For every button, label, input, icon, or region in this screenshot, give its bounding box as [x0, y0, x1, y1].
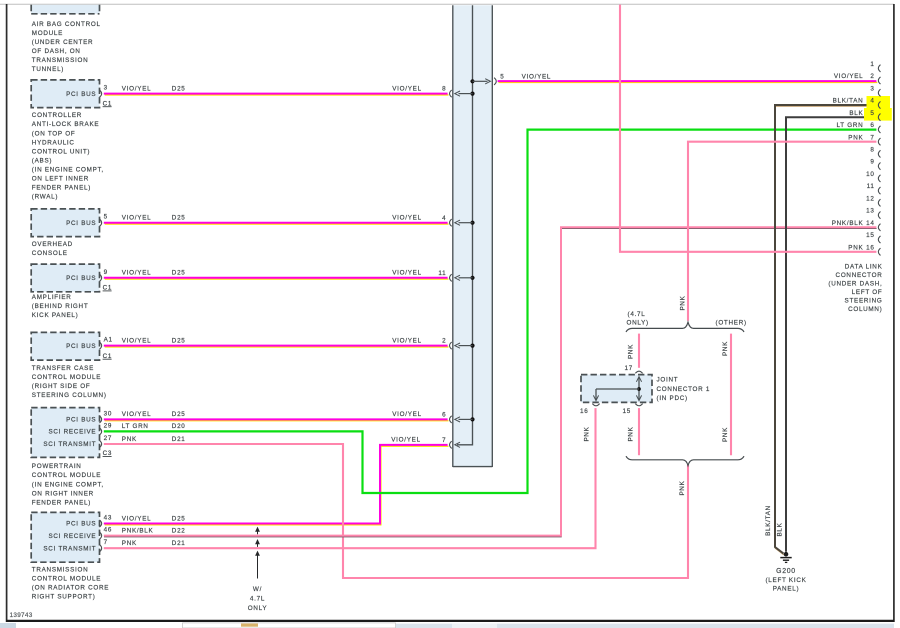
- svg-text:PNK/BLK: PNK/BLK: [832, 220, 864, 227]
- svg-text:VIO/YEL: VIO/YEL: [122, 85, 152, 92]
- svg-text:PNK: PNK: [584, 426, 591, 441]
- svg-text:PNK: PNK: [679, 295, 686, 310]
- W/ 4.7L ONLY arrow 2: [255, 539, 260, 547]
- bus junction pin 2: [442, 338, 475, 350]
- svg-text:(UNDER CENTER: (UNDER CENTER: [32, 39, 93, 46]
- svg-text:LEFT OF: LEFT OF: [852, 289, 883, 296]
- svg-text:RIGHT SUPPORT): RIGHT SUPPORT): [32, 594, 96, 601]
- svg-text:PCI BUS: PCI BUS: [66, 275, 96, 282]
- svg-text:G200: G200: [776, 568, 796, 575]
- svg-text:1: 1: [870, 61, 874, 68]
- svg-text:LT GRN: LT GRN: [837, 122, 864, 129]
- svg-text:(RIGHT SIDE OF: (RIGHT SIDE OF: [32, 383, 91, 390]
- label (OTHER): [716, 320, 747, 327]
- svg-text:CONSOLE: CONSOLE: [32, 250, 68, 257]
- svg-text:ON RIGHT INNER: ON RIGHT INNER: [32, 490, 94, 497]
- bus junction pin 6: [442, 412, 475, 424]
- wire VIO/YEL D25 pcm pin30 to bus pin6: [104, 419, 449, 420]
- svg-text:VIO/YEL: VIO/YEL: [122, 270, 152, 277]
- svg-text:PNK: PNK: [122, 436, 137, 443]
- label VIO/YEL D25 row overhead console: [122, 215, 422, 222]
- svg-text:PNK: PNK: [848, 134, 863, 141]
- svg-text:6: 6: [870, 122, 874, 129]
- svg-text:9: 9: [104, 269, 108, 276]
- svg-text:PCI BUS: PCI BUS: [66, 521, 96, 528]
- svg-text:9: 9: [870, 159, 874, 166]
- svg-text:VIO/YEL: VIO/YEL: [522, 74, 552, 81]
- svg-text:14: 14: [866, 220, 874, 227]
- wire BLK/TAN DLC pin4 to G200: [775, 105, 877, 555]
- module: powertrain control module box: [31, 408, 112, 458]
- controller anti-lock brake caption: [32, 112, 104, 201]
- svg-text:VIO/YEL: VIO/YEL: [122, 215, 152, 222]
- svg-text:VIO/YEL: VIO/YEL: [122, 411, 152, 418]
- svg-text:ONLY: ONLY: [248, 605, 268, 612]
- svg-text:(4.7L: (4.7L: [628, 311, 646, 318]
- label PNK/BLK D22 row tcm: [122, 527, 186, 534]
- PCI bus band: [453, 5, 493, 467]
- svg-text:CONTROL MODULE: CONTROL MODULE: [32, 374, 101, 381]
- wire PNK D21 pcm pin27 to splice merge: [104, 444, 688, 578]
- svg-text:A1: A1: [104, 337, 113, 344]
- svg-text:11: 11: [867, 183, 875, 190]
- svg-text:D21: D21: [172, 540, 186, 547]
- svg-text:(BEHIND RIGHT: (BEHIND RIGHT: [32, 303, 89, 310]
- svg-text:CONNECTOR: CONNECTOR: [836, 272, 883, 279]
- svg-text:D25: D25: [172, 85, 186, 92]
- svg-text:(IN ENGINE COMPT,: (IN ENGINE COMPT,: [32, 481, 104, 488]
- wire VIO/YEL D25 abs pin3 to bus pin8: [104, 94, 449, 95]
- svg-text:VIO/YEL: VIO/YEL: [391, 437, 421, 444]
- svg-text:PCI BUS: PCI BUS: [66, 91, 96, 98]
- svg-text:5: 5: [500, 74, 504, 81]
- wire VIO/YEL D25 transfer case A1 to bus pin2: [104, 346, 449, 347]
- svg-text:AIR BAG CONTROL: AIR BAG CONTROL: [32, 21, 101, 28]
- svg-text:D22: D22: [172, 527, 186, 534]
- svg-text:(LEFT KICK: (LEFT KICK: [765, 577, 806, 584]
- svg-text:PNK/BLK: PNK/BLK: [122, 527, 154, 534]
- svg-text:VIO/YEL: VIO/YEL: [392, 337, 422, 344]
- svg-text:3: 3: [870, 85, 874, 92]
- svg-text:8: 8: [442, 86, 446, 93]
- svg-text:17: 17: [625, 365, 633, 372]
- module: transfer case control module box: [31, 332, 113, 360]
- wire VIO/YEL D25 bus pin5 to DLC pin2: [498, 81, 878, 82]
- svg-text:ON LEFT INNER: ON LEFT INNER: [32, 176, 89, 183]
- wire PNK D21 DLC pin7 to splice split: [688, 142, 876, 321]
- svg-text:(OTHER): (OTHER): [716, 320, 747, 327]
- svg-text:POWERTRAIN: POWERTRAIN: [32, 463, 82, 470]
- svg-text:5: 5: [870, 110, 874, 117]
- svg-text:VIO/YEL: VIO/YEL: [122, 337, 152, 344]
- svg-text:PNK: PNK: [628, 426, 635, 441]
- label VIO/YEL after bus pin5: [522, 74, 552, 81]
- svg-text:VIO/YEL: VIO/YEL: [122, 515, 152, 522]
- wire VIO/YEL D25 amplifier pin9 to bus pin11: [104, 278, 449, 279]
- G200 caption: [765, 568, 806, 593]
- svg-text:KICK PANEL): KICK PANEL): [32, 312, 79, 319]
- svg-text:PCI BUS: PCI BUS: [66, 417, 96, 424]
- bus junction pin 8: [442, 86, 475, 98]
- svg-text:(ABS): (ABS): [32, 157, 52, 164]
- label VIO/YEL D25 row abs: [122, 85, 422, 92]
- svg-text:D25: D25: [172, 215, 186, 222]
- svg-text:12: 12: [866, 195, 874, 202]
- svg-text:27: 27: [104, 435, 112, 442]
- transfer case control module caption: [32, 365, 107, 399]
- svg-text:D20: D20: [172, 423, 186, 430]
- svg-text:PNK: PNK: [722, 341, 729, 356]
- svg-text:TRANSMISSION: TRANSMISSION: [32, 567, 89, 574]
- svg-text:BLK: BLK: [777, 522, 784, 536]
- W/ 4.7L ONLY caption: [248, 586, 268, 612]
- svg-text:7: 7: [442, 437, 446, 444]
- svg-text:TRANSFER CASE: TRANSFER CASE: [32, 365, 94, 372]
- svg-text:OVERHEAD: OVERHEAD: [32, 241, 73, 248]
- svg-text:4: 4: [442, 215, 446, 222]
- label VIO/YEL D25 row amplifier: [122, 270, 422, 277]
- svg-text:W/: W/: [253, 586, 262, 593]
- svg-text:TRANSMISSION: TRANSMISSION: [32, 57, 89, 64]
- wire PNK/BLK D22 tcm pin46 to DLC pin14: [104, 227, 877, 537]
- label PNK D21 row pcm: [122, 436, 186, 443]
- svg-text:SCI TRANSMIT: SCI TRANSMIT: [43, 441, 96, 448]
- svg-text:PNK: PNK: [722, 427, 729, 442]
- label (4.7L ONLY): [627, 311, 649, 327]
- svg-text:10: 10: [866, 171, 874, 178]
- svg-text:4.7L: 4.7L: [250, 595, 265, 602]
- svg-text:D25: D25: [172, 411, 186, 418]
- svg-text:CONNECTOR 1: CONNECTOR 1: [657, 386, 711, 393]
- svg-text:HYDRAULIC: HYDRAULIC: [32, 139, 75, 146]
- svg-text:VIO/YEL: VIO/YEL: [392, 85, 422, 92]
- data link connector caption: [828, 264, 882, 314]
- wire PNK joint connector 1 pin15 to merge: [638, 408, 640, 455]
- svg-text:DATA LINK: DATA LINK: [845, 264, 883, 271]
- svg-text:5: 5: [104, 214, 108, 221]
- svg-text:VIO/YEL: VIO/YEL: [392, 215, 422, 222]
- svg-text:BLK/TAN: BLK/TAN: [765, 505, 772, 536]
- svg-text:FENDER PANEL): FENDER PANEL): [32, 499, 91, 506]
- svg-text:BLK: BLK: [849, 110, 863, 117]
- svg-text:CONTROLLER: CONTROLLER: [32, 112, 82, 119]
- svg-text:BLK/TAN: BLK/TAN: [833, 98, 864, 105]
- joint connector 1 caption: [657, 376, 711, 402]
- svg-text:ANTI-LOCK BRAKE: ANTI-LOCK BRAKE: [32, 121, 99, 128]
- svg-text:D25: D25: [172, 515, 186, 522]
- svg-text:43: 43: [104, 515, 112, 522]
- svg-text:TUNNEL): TUNNEL): [32, 66, 64, 73]
- wire VIO/YEL D25 tcm pin43 to bus pin7: [104, 445, 449, 525]
- ground G200: [780, 552, 791, 563]
- svg-text:CONTROL UNIT): CONTROL UNIT): [32, 148, 90, 155]
- svg-text:PNK: PNK: [679, 480, 686, 495]
- svg-text:SCI RECEIVE: SCI RECEIVE: [48, 429, 96, 436]
- module: air bag control module (partial box): [31, 5, 99, 14]
- wire BLK DLC pin5 to G200: [786, 117, 876, 552]
- label VIO/YEL D25 row tcm: [122, 515, 186, 522]
- svg-text:PCI BUS: PCI BUS: [66, 220, 96, 227]
- bottom browser strip: [0, 623, 894, 628]
- wire PNK (OTHER) branch: [730, 334, 732, 456]
- svg-text:16: 16: [866, 244, 874, 251]
- svg-text:(IN ENGINE COMPT,: (IN ENGINE COMPT,: [32, 167, 104, 174]
- W/ 4.7L ONLY arrow 3: [255, 551, 260, 579]
- svg-text:COLUMN): COLUMN): [848, 306, 882, 313]
- label PNK D21 row tcm: [122, 540, 186, 547]
- wire PNK D21 DLC pin16 off top of view: [620, 5, 876, 252]
- svg-text:PNK: PNK: [122, 540, 137, 547]
- svg-text:7: 7: [104, 539, 108, 546]
- svg-text:D21: D21: [172, 436, 186, 443]
- svg-text:(UNDER DASH,: (UNDER DASH,: [828, 281, 882, 288]
- svg-text:3: 3: [104, 85, 108, 92]
- air bag control module caption: [32, 21, 101, 73]
- svg-text:13: 13: [866, 208, 874, 215]
- wire LT GRN D20 pcm pin29 to DLC pin6: [104, 130, 877, 493]
- module: controller anti-lock brake box: [31, 80, 112, 108]
- data link connector pins: [832, 61, 881, 256]
- svg-text:LT GRN: LT GRN: [122, 423, 149, 430]
- joint connector 1 box: [580, 365, 652, 415]
- wire PNK D21 tcm pin7 to joint connector 1 pin16: [104, 408, 596, 548]
- label VIO/YEL D25 row transfer case: [122, 337, 422, 344]
- svg-text:SCI RECEIVE: SCI RECEIVE: [48, 533, 96, 540]
- bus junction pin 7 (bus wire end): [442, 437, 460, 449]
- label VIO/YEL near bus pin7: [391, 437, 421, 444]
- wire VIO/YEL D25 overhead console pin5 to bus pin4: [104, 223, 449, 224]
- merge brace below joint connector: [626, 456, 744, 465]
- split brace (4.7L / OTHER): [626, 322, 744, 332]
- svg-text:SCI TRANSMIT: SCI TRANSMIT: [43, 545, 96, 552]
- PCI bus inner wire: [457, 5, 473, 445]
- svg-text:FENDER PANEL): FENDER PANEL): [32, 185, 91, 192]
- svg-text:PCI BUS: PCI BUS: [66, 343, 96, 350]
- module: transmission control module box: [31, 512, 112, 562]
- powertrain control module caption: [32, 463, 104, 506]
- svg-text:VIO/YEL: VIO/YEL: [392, 411, 422, 418]
- svg-text:139743: 139743: [10, 612, 33, 619]
- label LT GRN D20 row pcm: [122, 423, 186, 430]
- svg-text:11: 11: [438, 270, 446, 277]
- label VIO/YEL D25 row pcm: [122, 411, 422, 418]
- amplifier caption: [32, 294, 89, 319]
- svg-text:15: 15: [866, 232, 874, 239]
- module: overhead console box: [31, 209, 108, 237]
- transmission control module caption: [32, 567, 109, 601]
- bus junction pin 4: [442, 215, 475, 227]
- svg-text:PANEL): PANEL): [773, 586, 800, 593]
- svg-text:4: 4: [870, 98, 874, 105]
- svg-text:15: 15: [623, 408, 631, 415]
- svg-text:OF DASH, ON: OF DASH, ON: [32, 48, 81, 55]
- svg-text:VIO/YEL: VIO/YEL: [392, 270, 422, 277]
- svg-text:CONTROL MODULE: CONTROL MODULE: [32, 472, 101, 479]
- bus junction pin 5 (to DLC): [470, 74, 504, 85]
- svg-text:STEERING: STEERING: [845, 298, 883, 305]
- svg-text:JOINT: JOINT: [657, 376, 679, 383]
- svg-text:MODULE: MODULE: [32, 30, 63, 37]
- svg-text:AMPLIFIER: AMPLIFIER: [32, 294, 72, 301]
- svg-text:(RWAL): (RWAL): [32, 194, 58, 201]
- svg-text:ONLY): ONLY): [627, 320, 649, 327]
- svg-text:2: 2: [442, 338, 446, 345]
- svg-text:D25: D25: [172, 337, 186, 344]
- DLC highlight pins 4-5: [867, 96, 891, 108]
- svg-text:8: 8: [870, 147, 874, 154]
- wire PNK 4.7L branch to joint connector 1 pin17: [638, 334, 640, 368]
- svg-text:30: 30: [104, 410, 112, 417]
- svg-text:CONTROL MODULE: CONTROL MODULE: [32, 576, 101, 583]
- svg-text:PNK: PNK: [628, 344, 635, 359]
- module: amplifier box: [31, 264, 112, 292]
- svg-text:2: 2: [870, 73, 874, 80]
- svg-text:(IN PDC): (IN PDC): [657, 395, 688, 402]
- overhead console caption: [32, 241, 73, 257]
- svg-text:VIO/YEL: VIO/YEL: [834, 73, 864, 80]
- svg-text:D25: D25: [172, 270, 186, 277]
- W/ 4.7L ONLY arrow 1: [255, 527, 260, 535]
- svg-text:(ON RADIATOR CORE: (ON RADIATOR CORE: [32, 585, 109, 592]
- svg-text:STEERING COLUMN): STEERING COLUMN): [32, 392, 107, 399]
- svg-text:7: 7: [870, 134, 874, 141]
- svg-text:(ON TOP OF: (ON TOP OF: [32, 130, 76, 137]
- bus junction pin 11: [438, 270, 474, 282]
- svg-text:PNK: PNK: [848, 244, 863, 251]
- svg-text:6: 6: [442, 412, 446, 419]
- svg-text:16: 16: [580, 408, 588, 415]
- svg-text:29: 29: [104, 422, 112, 429]
- svg-text:46: 46: [104, 527, 112, 534]
